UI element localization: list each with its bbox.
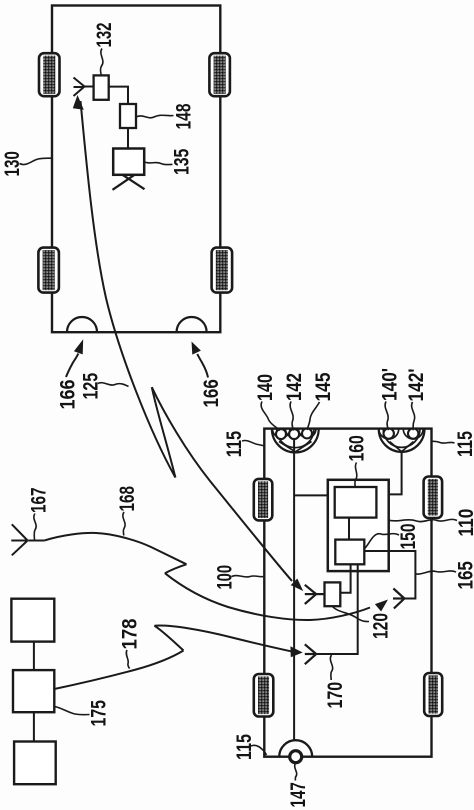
svg-text:132: 132 — [93, 23, 116, 48]
transmission curve 178 continuation to antenna 170 — [154, 626, 291, 652]
vehicle 130 body — [52, 6, 220, 333]
arrowhead 120 into right antenna — [375, 600, 388, 612]
wire box150 down to antenna 170 — [316, 564, 358, 654]
box chain: box bottom — [14, 742, 56, 785]
arrow 166 left — [66, 354, 78, 378]
corner sensor 147 on bottom edge — [279, 740, 312, 757]
leader 125 — [98, 383, 129, 387]
wire box1-box2 — [33, 642, 35, 671]
svg-text:160: 160 — [346, 435, 369, 461]
wire box148 to box135 — [127, 128, 129, 149]
svg-text:120: 120 — [370, 613, 393, 639]
break sliver 168 — [165, 564, 187, 573]
crossed legs under box 135 — [113, 175, 145, 190]
leader 168 — [123, 512, 125, 536]
leader 120 — [333, 607, 370, 622]
leader 178 — [126, 650, 129, 669]
wire box150 to small box 120 — [340, 564, 350, 592]
svg-text:150: 150 — [397, 524, 420, 550]
svg-text:115: 115 — [233, 734, 256, 760]
leader 145 — [307, 402, 319, 430]
wire left headlight to box 160 — [293, 440, 295, 741]
antenna A1 inside vehicle 130 — [74, 78, 95, 97]
transmission curve 168 continuation to right antenna — [165, 573, 370, 620]
wheel rear-right vehicle 130 — [212, 248, 233, 293]
lamp 140 — [276, 429, 286, 439]
svg-text:115: 115 — [223, 431, 246, 458]
antenna 170 of vehicle 100 — [305, 644, 316, 664]
lamp 140' — [384, 428, 394, 438]
leader 110 — [389, 519, 457, 521]
svg-text:115: 115 — [454, 431, 474, 457]
leader 100 — [232, 576, 264, 577]
infrastructure antenna 167 — [11, 524, 44, 555]
leader 115 bottom-left — [251, 745, 267, 755]
box 135 loudspeaker — [113, 149, 144, 175]
wire box150 right to right antenna — [364, 551, 415, 599]
wire box2-box3 — [33, 712, 35, 741]
leader 148 — [136, 115, 174, 118]
svg-text:148: 148 — [173, 103, 196, 129]
box 160 — [335, 487, 377, 518]
wire box132 to box148 — [109, 87, 128, 104]
leader 170 — [330, 655, 332, 680]
arrowhead into left antenna vehicle 100 — [291, 579, 304, 592]
right antenna of vehicle 100 — [393, 589, 404, 609]
box 175 (middle) — [13, 670, 54, 712]
transmission curve 168 (antenna 167 to break) — [44, 533, 186, 564]
left antenna of vehicle 100 — [305, 585, 325, 604]
break sliver 125 — [152, 387, 176, 477]
leader 165 — [416, 571, 456, 574]
small box 120 (receiver) — [325, 582, 341, 606]
lamp 145 — [302, 428, 312, 438]
svg-text:100: 100 — [214, 565, 237, 590]
svg-text:110: 110 — [455, 509, 474, 537]
transmission curve 125 continuation to vehicle 100 — [152, 387, 292, 581]
box chain: box top — [11, 599, 54, 642]
leader 167 — [34, 514, 36, 541]
box 150 — [335, 540, 364, 565]
leader 140' — [385, 402, 388, 431]
leader 150 — [365, 534, 399, 549]
svg-text:140: 140 — [254, 374, 277, 401]
leader 135 — [144, 162, 172, 165]
wheel rear-right vehicle 100 — [424, 673, 442, 716]
arrow 166 right — [197, 354, 208, 378]
svg-text:147: 147 — [287, 782, 310, 807]
arrowhead into antenna 170 — [290, 646, 302, 657]
svg-text:135: 135 — [171, 148, 194, 175]
headlight cluster left (vehicle 100) — [272, 429, 319, 452]
wire right headlight to box 110 — [389, 452, 402, 495]
wire box160 to box150 — [348, 518, 350, 540]
wheel front-left vehicle 100 — [254, 479, 272, 521]
leader 142 — [290, 402, 294, 431]
svg-text:140': 140' — [378, 368, 401, 401]
leader 115 top-left — [242, 440, 265, 446]
box 148 — [120, 104, 136, 128]
svg-text:125: 125 — [80, 373, 103, 400]
leader 160 — [355, 463, 357, 488]
wheel front-right vehicle 100 — [424, 477, 443, 519]
leader 140 — [261, 402, 280, 431]
svg-text:165: 165 — [455, 561, 474, 590]
wheel rear-left vehicle 130 — [38, 248, 59, 293]
svg-text:167: 167 — [28, 488, 51, 514]
svg-text:178: 178 — [119, 618, 142, 649]
leader 115 top-right — [432, 441, 455, 443]
leader 130 — [20, 158, 52, 164]
leader 147 — [295, 763, 297, 781]
lamp 142' — [408, 428, 418, 438]
svg-text:145: 145 — [312, 372, 335, 401]
transmission curve 125 (vehicle130 antenna to break) — [81, 101, 176, 478]
wheel rear-left vehicle 100 — [254, 674, 273, 717]
wheel front-left vehicle 130 — [39, 53, 60, 96]
svg-text:166: 166 — [57, 380, 80, 410]
svg-text:175: 175 — [88, 700, 111, 727]
svg-text:130: 130 — [1, 151, 24, 176]
leader 132 — [100, 49, 102, 76]
arrowhead into antenna A1 — [73, 95, 84, 110]
svg-text:166: 166 — [200, 379, 223, 407]
wheel front-right vehicle 130 — [209, 53, 230, 96]
svg-text:170: 170 — [324, 682, 347, 709]
svg-text:168: 168 — [116, 486, 139, 512]
break sliver 178 — [154, 626, 183, 651]
fender arc left on bottom edge of vehicle 130 — [67, 317, 97, 332]
vehicle 100 body — [264, 429, 431, 757]
leader 142' — [412, 402, 415, 430]
leader 175 — [55, 707, 90, 715]
transmission curve 178 (box 175 to break) — [54, 651, 183, 690]
headlight cluster right (vehicle 100) — [379, 429, 425, 452]
lamp 142 — [289, 429, 299, 439]
box 132 — [94, 75, 109, 99]
svg-text:142: 142 — [283, 373, 306, 401]
fender arc right on bottom edge of vehicle 130 — [177, 317, 207, 332]
svg-text:142': 142' — [405, 369, 428, 402]
box 110 control unit — [328, 480, 389, 571]
